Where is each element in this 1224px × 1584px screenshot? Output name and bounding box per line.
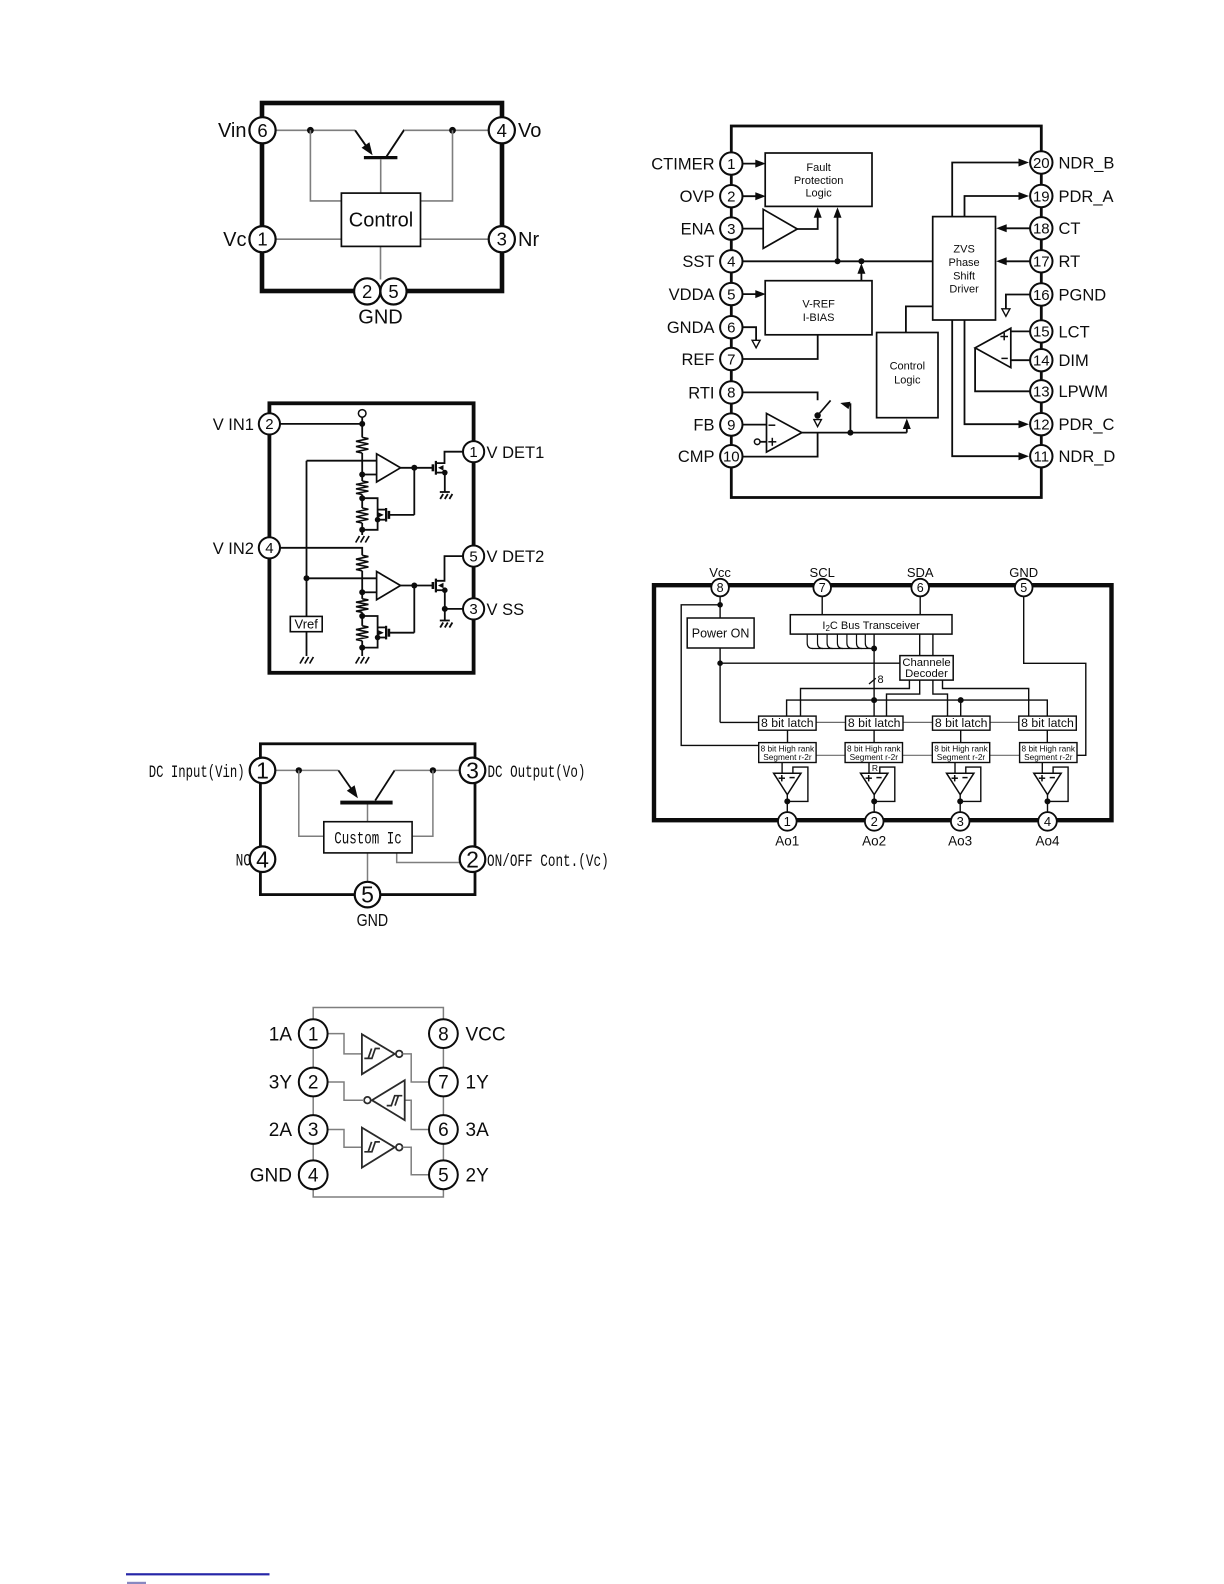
svg-text:PGND: PGND [1059,286,1107,304]
svg-text:Power ON: Power ON [692,627,750,641]
svg-text:5: 5 [388,281,398,302]
svg-text:8: 8 [727,385,735,402]
svg-text:1: 1 [469,444,477,461]
svg-text:8 bit latch: 8 bit latch [1021,716,1074,730]
svg-text:2A: 2A [269,1120,293,1141]
svg-text:I-BIAS: I-BIAS [803,312,835,324]
svg-text:4: 4 [256,846,269,872]
svg-text:18: 18 [1033,221,1050,238]
svg-text:8 bit latch: 8 bit latch [761,716,814,730]
svg-text:PDR_A: PDR_A [1059,188,1114,206]
svg-text:NC: NC [236,852,251,872]
svg-text:ZVS: ZVS [953,244,974,256]
svg-text:3: 3 [308,1120,319,1141]
svg-text:Nr: Nr [518,229,539,251]
svg-text:Channele: Channele [902,657,950,669]
svg-text:3: 3 [957,814,964,829]
svg-text:9: 9 [727,417,735,434]
svg-text:3Y: 3Y [269,1073,293,1094]
svg-text:Custom Ic: Custom Ic [334,830,402,850]
svg-text:V IN1: V IN1 [213,416,254,434]
svg-text:I2C Bus Transceiver: I2C Bus Transceiver [822,620,920,633]
svg-text:OVP: OVP [680,188,715,206]
svg-text:1: 1 [257,229,267,250]
svg-text:Vref: Vref [295,617,319,632]
svg-text:5: 5 [361,882,374,908]
svg-text:16: 16 [1033,287,1050,304]
svg-text:6: 6 [917,581,924,595]
svg-text:Control: Control [349,209,413,231]
svg-text:7: 7 [819,581,826,595]
svg-text:Vcc: Vcc [709,565,731,580]
svg-text:Driver: Driver [949,284,979,296]
svg-text:SST: SST [682,253,714,271]
svg-text:7: 7 [438,1073,449,1094]
svg-text:GND: GND [250,1166,292,1187]
svg-text:Decoder: Decoder [905,668,948,680]
svg-text:Segment r-2r: Segment r-2r [850,752,899,762]
svg-text:FB: FB [693,417,714,435]
svg-text:CMP: CMP [678,448,715,466]
svg-text:6: 6 [438,1120,449,1141]
svg-text:14: 14 [1033,352,1050,369]
svg-text:RT: RT [1059,253,1081,271]
svg-text:17: 17 [1033,254,1050,271]
svg-text:10: 10 [723,448,740,465]
svg-text:1Y: 1Y [466,1073,490,1094]
svg-text:Logic: Logic [805,188,832,200]
svg-text:20: 20 [1033,155,1050,172]
svg-text:PDR_C: PDR_C [1059,416,1115,434]
svg-text:Logic: Logic [894,375,921,387]
svg-text:3A: 3A [466,1120,490,1141]
svg-text:Vin: Vin [218,120,247,142]
svg-text:3: 3 [497,229,507,250]
svg-text:V DET1: V DET1 [487,444,545,462]
svg-text:Segment r-2r: Segment r-2r [937,752,986,762]
svg-text:4: 4 [497,120,507,141]
svg-text:Shift: Shift [953,270,975,282]
svg-text:1: 1 [256,757,269,783]
svg-text:R: R [872,763,878,773]
svg-text:1: 1 [784,814,791,829]
svg-text:Segment r-2r: Segment r-2r [1024,752,1073,762]
svg-text:V SS: V SS [487,601,525,619]
svg-text:7: 7 [727,351,735,368]
svg-text:DIM: DIM [1059,352,1089,370]
svg-text:V IN2: V IN2 [213,540,254,558]
svg-text:2: 2 [466,846,479,872]
svg-text:3: 3 [469,601,477,618]
svg-text:NDR_B: NDR_B [1059,154,1115,172]
svg-text:19: 19 [1033,188,1050,205]
svg-text:4: 4 [265,540,273,557]
svg-text:V DET2: V DET2 [487,548,545,566]
svg-text:2: 2 [871,814,878,829]
svg-text:SCL: SCL [810,565,835,580]
svg-text:GND: GND [358,307,402,329]
svg-text:1: 1 [727,156,735,173]
svg-text:V-REF: V-REF [802,299,835,311]
svg-text:8: 8 [438,1024,449,1045]
svg-text:Control: Control [890,361,925,373]
svg-text:CTIMER: CTIMER [651,156,714,174]
svg-text:ENA: ENA [681,221,715,239]
svg-text:1A: 1A [269,1024,293,1045]
svg-text:LPWM: LPWM [1059,383,1109,401]
svg-text:VCC: VCC [466,1024,506,1045]
svg-text:Protection: Protection [794,175,844,187]
svg-text:SDA: SDA [907,565,934,580]
svg-text:3: 3 [727,221,735,238]
svg-text:Vo: Vo [518,120,541,142]
svg-text:8 bit latch: 8 bit latch [935,716,988,730]
svg-text:13: 13 [1033,384,1050,401]
svg-text:Ao2: Ao2 [862,834,886,849]
svg-text:4: 4 [727,254,735,271]
svg-text:5: 5 [438,1165,449,1186]
svg-text:ON/OFF Cont.(Vc): ON/OFF Cont.(Vc) [487,852,609,872]
svg-text:2Y: 2Y [466,1166,490,1187]
svg-text:8: 8 [878,674,884,686]
svg-text:LCT: LCT [1059,323,1090,341]
svg-text:4: 4 [308,1165,319,1186]
svg-text:11: 11 [1034,448,1050,465]
svg-text:15: 15 [1033,324,1050,341]
svg-text:6: 6 [727,319,735,336]
svg-text:5: 5 [469,548,477,565]
svg-text:8: 8 [717,581,724,595]
svg-text:1: 1 [308,1024,319,1045]
svg-text:2: 2 [727,188,735,205]
svg-text:RTI: RTI [688,384,714,402]
svg-text:DC Output(Vo): DC Output(Vo) [488,763,586,783]
svg-text:2: 2 [308,1073,319,1094]
svg-text:VDDA: VDDA [669,286,715,304]
svg-text:4: 4 [1044,814,1051,829]
svg-text:DC Input(Vin): DC Input(Vin) [149,763,245,783]
svg-text:GND: GND [1009,565,1038,580]
svg-text:5: 5 [727,286,735,303]
svg-text:5: 5 [1020,581,1027,595]
svg-text:Phase: Phase [948,257,979,269]
svg-text:REF: REF [682,351,715,369]
svg-text:Vc: Vc [223,229,246,251]
svg-text:2: 2 [362,281,372,302]
svg-text:2: 2 [265,416,273,433]
svg-text:Fault: Fault [806,162,830,174]
svg-text:GND: GND [357,910,389,930]
svg-text:3: 3 [466,757,479,783]
svg-text:8 bit latch: 8 bit latch [848,716,901,730]
svg-text:Ao4: Ao4 [1035,834,1060,849]
svg-text:NDR_D: NDR_D [1059,448,1116,466]
svg-text:GNDA: GNDA [667,319,715,337]
svg-text:Ao3: Ao3 [948,834,972,849]
svg-text:6: 6 [257,120,267,141]
svg-text:CT: CT [1059,220,1081,238]
svg-text:Segment r-2r: Segment r-2r [763,752,812,762]
svg-text:Ao1: Ao1 [775,834,799,849]
svg-text:12: 12 [1033,416,1050,433]
